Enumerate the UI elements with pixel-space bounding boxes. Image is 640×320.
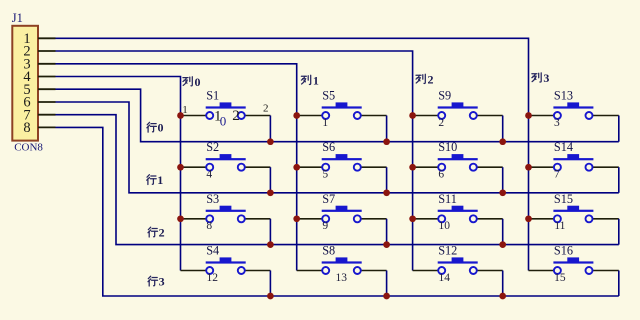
svg-text:3: 3: [159, 275, 165, 289]
pushbutton S16: [529, 257, 619, 274]
pushbutton S15: [529, 206, 619, 223]
wire S15 pin2 to row 2: [618, 219, 620, 245]
connector J1 body: [12, 26, 38, 141]
svg-text:2: 2: [232, 108, 240, 124]
junction column 1 / S5 pin1: [293, 112, 300, 119]
svg-text:S14: S14: [554, 140, 573, 154]
svg-text:5: 5: [322, 169, 328, 181]
svg-text:S15: S15: [554, 192, 573, 206]
junction column 3 / S13 pin1: [525, 112, 532, 119]
junction row 1 / S6 pin2: [383, 189, 390, 196]
svg-text:S1: S1: [206, 89, 219, 103]
svg-text:2: 2: [263, 103, 269, 115]
svg-text:12: 12: [206, 272, 218, 284]
pushbutton S3: [181, 206, 271, 223]
wire S5 pin2 to row 0: [386, 116, 388, 142]
svg-text:13: 13: [336, 272, 348, 284]
svg-text:15: 15: [554, 272, 566, 284]
svg-text:J1: J1: [12, 11, 23, 25]
svg-text:S7: S7: [322, 192, 335, 206]
wire net row 2 (pin 7): [56, 115, 619, 245]
wire S13 pin2 to row 0: [618, 116, 620, 142]
svg-text:2: 2: [428, 73, 434, 87]
net label row 0: [147, 121, 164, 135]
pushbutton S13: [529, 102, 619, 119]
svg-text:1: 1: [313, 74, 319, 88]
svg-text:S16: S16: [554, 244, 573, 258]
junction column 0 / S3 pin1: [177, 215, 184, 222]
wire net column 0 (pin 4): [56, 77, 181, 271]
svg-text:6: 6: [438, 169, 444, 181]
svg-text:8: 8: [206, 220, 212, 232]
wire S8 pin2 to row 3: [386, 271, 388, 297]
pushbutton S11: [413, 206, 503, 223]
pushbutton S5: [297, 102, 387, 119]
wire S2 pin2 to row 1: [269, 167, 271, 193]
junction row 0 / S1 pin2: [267, 138, 274, 145]
connector pin 2 stub: [38, 50, 56, 52]
net label row 1: [147, 173, 164, 187]
junction column 3 / S15 pin1: [525, 215, 532, 222]
connector pin 3 stub: [38, 63, 56, 65]
svg-text:3: 3: [554, 117, 560, 129]
wire S6 pin2 to row 1: [386, 167, 388, 193]
junction row 3 / S4 pin2: [267, 293, 274, 300]
junction row 3 / S12 pin2: [499, 293, 506, 300]
junction column 2 / S11 pin1: [409, 215, 416, 222]
connector pin 7 stub: [38, 114, 56, 116]
wire S7 pin2 to row 2: [386, 219, 388, 245]
connector pin 1 stub: [38, 37, 56, 39]
wire S12 pin2 to row 3: [502, 271, 504, 297]
junction row 0 / S5 pin2: [383, 138, 390, 145]
pushbutton S9: [413, 102, 503, 119]
net label column 0: [183, 75, 201, 89]
svg-text:S12: S12: [438, 244, 457, 258]
net label row 3: [148, 275, 165, 289]
junction column 1 / S7 pin1: [293, 215, 300, 222]
svg-text:0: 0: [195, 75, 201, 89]
svg-text:10: 10: [438, 220, 450, 232]
junction column 0 / S1 pin1: [177, 112, 184, 119]
svg-text:14: 14: [438, 272, 450, 284]
junction row 1 / S2 pin2: [267, 189, 274, 196]
svg-text:S4: S4: [206, 244, 219, 258]
net label row 2: [148, 226, 165, 240]
wire net column 2 (pin 2): [56, 51, 413, 271]
wire S14 pin2 to row 1: [618, 167, 620, 193]
wire S1 pin2 to row 0: [269, 116, 271, 142]
junction row 3 / S8 pin2: [383, 293, 390, 300]
svg-text:1: 1: [157, 173, 163, 187]
net label column 1: [301, 74, 319, 88]
wire net row 0 (pin 5): [56, 89, 619, 142]
svg-text:S9: S9: [438, 89, 451, 103]
connector pin 4 stub: [38, 76, 56, 78]
svg-text:S2: S2: [206, 140, 219, 154]
svg-text:1: 1: [322, 117, 328, 129]
svg-text:2: 2: [159, 226, 165, 240]
wire S16 pin2 to row 3: [618, 271, 620, 297]
junction column 2 / S9 pin1: [409, 112, 416, 119]
svg-text:CON8: CON8: [14, 142, 43, 154]
wire S10 pin2 to row 1: [502, 167, 504, 193]
junction row 2 / S11 pin2: [499, 241, 506, 248]
svg-text:3: 3: [543, 71, 549, 85]
svg-text:7: 7: [554, 169, 560, 181]
svg-text:S10: S10: [438, 140, 457, 154]
svg-text:S5: S5: [322, 89, 335, 103]
wire S4 pin2 to row 3: [269, 271, 271, 297]
svg-text:S13: S13: [554, 89, 573, 103]
wire S11 pin2 to row 2: [502, 219, 504, 245]
pushbutton S2: [181, 154, 271, 171]
net label column 2: [416, 73, 434, 87]
pushbutton S14: [529, 154, 619, 171]
svg-text:8: 8: [23, 120, 30, 136]
svg-text:2: 2: [438, 117, 444, 129]
svg-text:S3: S3: [206, 192, 219, 206]
junction column 3 / S14 pin1: [525, 164, 532, 171]
svg-text:9: 9: [322, 220, 328, 232]
junction column 1 / S6 pin1: [293, 164, 300, 171]
svg-text:S11: S11: [438, 192, 457, 206]
pushbutton S7: [297, 206, 387, 223]
connector pin 8 stub: [38, 126, 56, 128]
svg-text:0: 0: [158, 121, 164, 135]
wire net row 3 (pin 8): [56, 127, 619, 296]
wire net column 3 (pin 1): [56, 38, 529, 270]
wire net row 1 (pin 6): [56, 102, 619, 193]
svg-text:1: 1: [214, 108, 222, 124]
pushbutton S10: [413, 154, 503, 171]
connector pin 5 stub: [38, 88, 56, 90]
svg-text:S6: S6: [322, 140, 335, 154]
pushbutton S12: [413, 257, 503, 274]
pushbutton S8: [297, 257, 387, 274]
svg-text:4: 4: [206, 169, 212, 181]
wire S3 pin2 to row 2: [269, 219, 271, 245]
junction row 0 / S9 pin2: [499, 138, 506, 145]
junction column 0 / S2 pin1: [177, 164, 184, 171]
junction column 2 / S10 pin1: [409, 164, 416, 171]
wire net column 1 (pin 3): [56, 64, 297, 271]
svg-text:S8: S8: [322, 244, 335, 258]
wire S9 pin2 to row 0: [502, 116, 504, 142]
net label column 3: [532, 71, 550, 85]
pushbutton S1: [181, 102, 271, 119]
junction row 1 / S10 pin2: [499, 189, 506, 196]
pushbutton S4: [181, 257, 271, 274]
svg-text:11: 11: [554, 220, 565, 232]
junction row 2 / S3 pin2: [267, 241, 274, 248]
junction row 2 / S7 pin2: [383, 241, 390, 248]
connector pin 6 stub: [38, 101, 56, 103]
pushbutton S6: [297, 154, 387, 171]
